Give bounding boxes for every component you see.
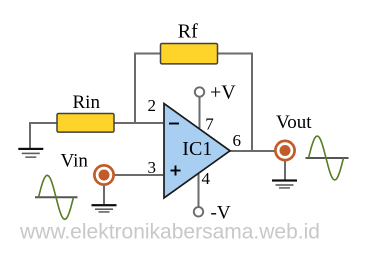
svg-text:7: 7: [205, 115, 214, 134]
svg-text:3: 3: [148, 158, 157, 177]
ground (below Vout terminal): [272, 179, 297, 188]
wire: Rin right to IC1 pin 2: [113, 122, 163, 124]
svg-text:www.elektronikabersama.web.id: www.elektronikabersama.web.id: [19, 221, 320, 244]
terminal +V: [195, 87, 204, 96]
output sine wave symbol: [306, 136, 349, 180]
wire: Rf right down to output node: [217, 54, 252, 153]
svg-text:6: 6: [233, 131, 242, 150]
svg-text:+V: +V: [210, 82, 236, 104]
svg-text:4: 4: [202, 169, 211, 188]
wire: input ground up to Rin left: [30, 123, 58, 148]
svg-text:IC1: IC1: [182, 138, 212, 160]
ground (input, below Rin left): [18, 148, 43, 158]
wire: Vout terminal down to ground: [284, 160, 286, 180]
terminal Vout: [275, 141, 294, 160]
svg-text:2: 2: [148, 96, 157, 115]
wire: Vin terminal to IC1 pin 3: [114, 174, 163, 176]
ground (below Vin terminal): [92, 204, 117, 213]
terminal -V: [194, 207, 203, 216]
op-amp non-inverting input marker (+): [171, 166, 181, 176]
svg-text:Rf: Rf: [178, 21, 198, 43]
op-amp U1 IC1 triangle: [164, 104, 230, 199]
resistor Rin: [57, 114, 114, 133]
wire: IC1 pin 7 up to +V: [199, 97, 201, 128]
svg-text:Rin: Rin: [73, 92, 101, 113]
wire: IC1 pin 6 to Vout terminal: [229, 150, 275, 152]
wire: IC1 pin 4 down to -V: [198, 174, 200, 207]
terminal Vin: [94, 165, 113, 184]
svg-text:Vin: Vin: [61, 151, 89, 172]
wire: Vin terminal down to ground: [103, 185, 105, 204]
input sine wave symbol: [35, 175, 78, 219]
op-amp inverting input marker (-): [169, 123, 179, 125]
wire: feedback node up to Rf left: [135, 54, 161, 125]
resistor Rf: [161, 44, 218, 64]
svg-text:Vout: Vout: [276, 112, 312, 133]
